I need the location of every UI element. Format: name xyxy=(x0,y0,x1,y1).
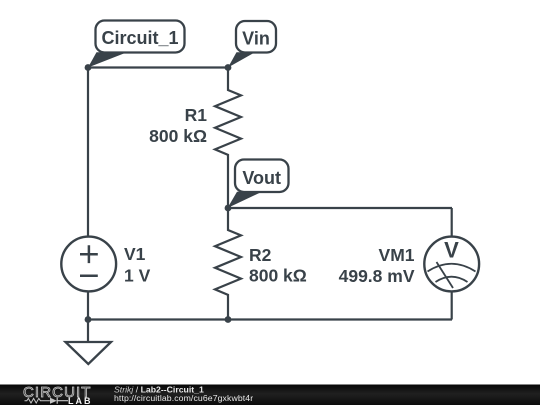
svg-text:R2: R2 xyxy=(249,245,272,265)
wire voltmeter top lead xyxy=(451,208,453,237)
svg-text:800 kΩ: 800 kΩ xyxy=(149,126,207,146)
voltage source V1 xyxy=(61,237,116,292)
node label Vout xyxy=(228,160,289,209)
wire ground stem xyxy=(87,320,89,343)
label R2 value xyxy=(249,245,307,286)
node label Vin xyxy=(228,21,276,68)
label R1 value xyxy=(149,105,207,146)
svg-text:Vout: Vout xyxy=(242,168,281,188)
label V1 value xyxy=(124,244,151,285)
svg-text:V1: V1 xyxy=(124,244,146,264)
svg-text:Vin: Vin xyxy=(242,29,270,49)
ground xyxy=(66,342,112,364)
svg-text:http://circuitlab.com/cu6e7gxk: http://circuitlab.com/cu6e7gxkwbt4r xyxy=(114,393,253,403)
node label Circuit_1 xyxy=(88,21,185,68)
resistor R1 xyxy=(215,68,241,209)
node junction bottom left xyxy=(85,316,92,323)
node junction at Circuit_1 xyxy=(85,64,92,71)
node junction at Vout xyxy=(225,205,232,212)
wire Vout horizontal to voltmeter xyxy=(228,207,452,209)
svg-text:V: V xyxy=(444,238,459,263)
svg-text:VM1: VM1 xyxy=(379,245,415,265)
label VM1 value xyxy=(339,245,415,286)
wire V1 bottom to bottom rail xyxy=(87,291,89,320)
footer bar xyxy=(0,385,540,405)
svg-text:R1: R1 xyxy=(185,105,208,125)
voltmeter VM1 xyxy=(424,237,479,292)
resistor R2 xyxy=(215,208,241,320)
svg-text:Circuit_1: Circuit_1 xyxy=(102,28,179,48)
svg-text:499.8 mV: 499.8 mV xyxy=(339,266,415,286)
node junction bottom middle xyxy=(225,316,232,323)
wire voltmeter bottom lead xyxy=(451,291,453,320)
svg-text:LAB: LAB xyxy=(68,396,93,405)
svg-text:1 V: 1 V xyxy=(124,265,151,285)
CircuitLab logo xyxy=(23,384,93,405)
wire left vertical node to V1 top xyxy=(87,68,89,238)
wire bottom rail horizontal xyxy=(88,318,452,320)
svg-text:800 kΩ: 800 kΩ xyxy=(249,266,307,286)
wire top horizontal Circuit_1 to Vin xyxy=(88,66,228,68)
node junction at Vin xyxy=(225,64,232,71)
